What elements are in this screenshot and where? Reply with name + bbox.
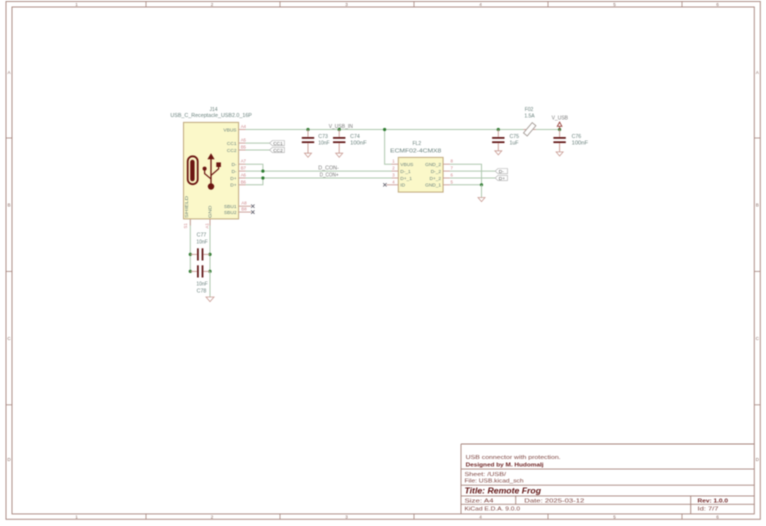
svg-text:A4: A4 — [241, 124, 247, 129]
svg-text:B7: B7 — [241, 166, 247, 171]
FL2 pin 6 D+_2 — [429, 173, 453, 182]
svg-text:C77: C77 — [197, 232, 207, 238]
svg-text:10nF: 10nF — [318, 141, 329, 147]
J14 pin VBUS A4 — [223, 124, 246, 133]
svg-text:D+: D+ — [499, 176, 505, 182]
svg-text:6: 6 — [716, 514, 719, 519]
svg-text:V_USB: V_USB — [552, 116, 569, 122]
svg-text:CC1: CC1 — [227, 141, 237, 147]
wire SHIELD drop — [189, 219, 191, 272]
ground below C74 — [336, 153, 343, 157]
svg-text:2: 2 — [211, 514, 214, 519]
svg-text:USB connector with protection.: USB connector with protection. — [466, 455, 562, 461]
J14 pin D+ A6 — [230, 173, 246, 182]
wire FL2 D+_2 out — [450, 177, 495, 179]
svg-text:A1: A1 — [205, 223, 210, 229]
svg-text:CC1: CC1 — [273, 141, 283, 147]
capacitor C73 — [302, 130, 330, 154]
svg-text:A8: A8 — [241, 201, 247, 206]
wire D+ B6 jog — [246, 178, 263, 185]
power flag V_USB — [552, 116, 569, 130]
svg-text:VBUS: VBUS — [223, 127, 236, 133]
ground below C73 — [305, 153, 312, 157]
svg-text:SHIELD: SHIELD — [184, 195, 190, 218]
wire C78 ground stub — [209, 271, 211, 297]
svg-text:D+: D+ — [230, 176, 236, 182]
J14 pin SBU1 A8 — [224, 201, 251, 210]
svg-text:GND: GND — [208, 205, 214, 218]
global label D+ — [495, 175, 507, 181]
junction D- jog — [261, 170, 264, 173]
wire VBUS rail V_USB_IN — [246, 129, 560, 131]
wire D- A7 jog — [246, 164, 263, 171]
junction FL2 GND — [480, 183, 483, 186]
svg-text:D-_1: D-_1 — [400, 169, 411, 175]
svg-text:CC2: CC2 — [273, 148, 283, 154]
J14 usb trident icon — [203, 153, 221, 189]
svg-text:C78: C78 — [197, 289, 207, 295]
svg-text:D-: D- — [499, 169, 504, 175]
J14 usb-c pill icon — [188, 156, 198, 184]
svg-text:CC2: CC2 — [227, 148, 237, 154]
svg-text:C76: C76 — [572, 134, 582, 140]
svg-text:D-_2: D-_2 — [431, 169, 442, 175]
J14 pin SBU2 B8 — [224, 207, 251, 216]
FL2 pin 3 D+_1 — [392, 173, 413, 182]
global label CC1 — [270, 141, 285, 147]
svg-text:KiCad E.D.A. 9.0.0: KiCad E.D.A. 9.0.0 — [465, 507, 521, 513]
J14 pin GND A1 — [205, 205, 214, 229]
FL2 pin 2 D-_1 — [392, 166, 412, 175]
svg-text:A5: A5 — [241, 138, 247, 143]
global label D- — [495, 169, 507, 175]
no-connect FL2 ID — [383, 183, 386, 186]
J14 pin CC1 A5 — [227, 138, 247, 147]
filter U FL2 body — [398, 157, 443, 192]
ground below C75 — [495, 151, 502, 155]
svg-text:6: 6 — [716, 2, 719, 7]
svg-text:SBU2: SBU2 — [224, 210, 237, 216]
svg-text:C75: C75 — [510, 134, 520, 140]
svg-text:5: 5 — [613, 514, 616, 519]
svg-text:B5: B5 — [241, 145, 247, 150]
ground below C78 — [206, 297, 214, 302]
svg-text:1uF: 1uF — [510, 141, 519, 147]
svg-text:100nF: 100nF — [350, 141, 367, 147]
wire D_CON+ segment — [246, 177, 392, 179]
svg-text:D-: D- — [231, 162, 236, 168]
ground below C76 — [556, 152, 563, 156]
svg-text:3: 3 — [345, 2, 348, 7]
wire CC2 stub — [246, 149, 270, 151]
capacitor C76 — [553, 130, 588, 152]
svg-text:4: 4 — [479, 2, 482, 7]
svg-text:5: 5 — [613, 2, 616, 7]
junction V_USB_IN / FL2 — [383, 128, 386, 131]
svg-text:Size: A4: Size: A4 — [465, 498, 494, 504]
svg-text:1: 1 — [75, 2, 78, 7]
svg-text:ID: ID — [400, 183, 405, 189]
junction C77 left — [189, 253, 192, 256]
svg-text:D+: D+ — [230, 183, 236, 189]
svg-text:10nF: 10nF — [196, 239, 207, 245]
capacitor C78 — [190, 265, 210, 294]
J14 pin D- B7 — [231, 166, 246, 175]
svg-text:VBUS: VBUS — [400, 162, 413, 168]
svg-text:File: USB.kicad_sch: File: USB.kicad_sch — [465, 479, 524, 485]
svg-text:1.5A: 1.5A — [524, 113, 535, 119]
svg-text:C74: C74 — [350, 134, 360, 140]
wire FL2 ground stub — [481, 185, 483, 198]
J14 pin D- A7 — [231, 159, 246, 168]
wire GND drop — [209, 219, 211, 272]
svg-text:2: 2 — [211, 2, 214, 7]
svg-text:A6: A6 — [241, 173, 247, 178]
global label CC2 — [270, 147, 285, 153]
svg-text:SBU1: SBU1 — [224, 204, 237, 210]
FL2 pin 7 D-_2 — [431, 166, 454, 175]
frame column ticks — [146, 2, 682, 520]
svg-text:Rev: 1.0.0: Rev: 1.0.0 — [698, 498, 729, 504]
wire FL2 GND_2 to GND_1 — [450, 164, 482, 185]
svg-text:A7: A7 — [241, 159, 247, 164]
wire CC1 stub — [246, 142, 270, 144]
FL2 pin 5 GND_1 — [425, 179, 453, 188]
svg-text:100nF: 100nF — [572, 141, 589, 147]
fuse F02 — [524, 107, 536, 136]
svg-text:V_USB_IN: V_USB_IN — [329, 124, 354, 130]
svg-text:D_CON+: D_CON+ — [320, 173, 339, 179]
junction C78 right — [208, 270, 211, 273]
junction C78 left — [189, 270, 192, 273]
svg-text:D+_2: D+_2 — [429, 176, 441, 182]
svg-text:D+_1: D+_1 — [400, 176, 412, 182]
junction V_USB_IN / C75 — [497, 128, 500, 131]
junction D+ jog — [261, 176, 264, 179]
svg-text:FL2: FL2 — [412, 141, 421, 147]
svg-text:D-: D- — [231, 169, 236, 175]
capacitor C77 — [190, 232, 210, 260]
FL2 pin 4 ID — [387, 179, 406, 188]
svg-text:USB_C_Receptacle_USB2.0_16P: USB_C_Receptacle_USB2.0_16P — [170, 113, 252, 119]
title block lines — [461, 444, 754, 514]
svg-text:Sheet: /USB/: Sheet: /USB/ — [465, 472, 507, 478]
no-connect SBU1 — [251, 205, 254, 208]
no-connect SBU2 — [251, 210, 254, 213]
ground below FL2 — [478, 198, 485, 202]
svg-text:B: B — [756, 202, 759, 207]
FL2 pin 8 GND_2 — [425, 159, 453, 168]
frame row letters — [7, 70, 759, 462]
svg-text:1: 1 — [75, 514, 78, 519]
svg-text:3: 3 — [345, 514, 348, 519]
junction C77 right — [208, 253, 211, 256]
J14 pin D+ B6 — [230, 179, 246, 188]
svg-text:B: B — [7, 202, 10, 207]
capacitor C74 — [333, 130, 367, 154]
capacitor C75 — [492, 130, 519, 151]
junction V_USB / C76 — [558, 128, 561, 131]
svg-text:B6: B6 — [241, 179, 247, 184]
svg-text:J14: J14 — [209, 107, 217, 113]
svg-text:Id: 7/7: Id: 7/7 — [698, 507, 719, 513]
wire FL2 D-_2 out — [450, 170, 495, 172]
junction V_USB_IN / C73 — [306, 128, 309, 131]
frame row ticks — [6, 138, 760, 405]
svg-text:Date: 2025-03-12: Date: 2025-03-12 — [524, 498, 584, 504]
J14 pin SHIELD S1 — [183, 195, 190, 228]
svg-text:10nF: 10nF — [196, 282, 207, 288]
svg-text:GND_2: GND_2 — [425, 162, 441, 168]
svg-text:B8: B8 — [241, 207, 247, 212]
connector J14 body — [184, 122, 239, 218]
svg-text:F02: F02 — [525, 107, 534, 113]
FL2 pin 1 VBUS — [392, 159, 414, 168]
svg-text:D_CON-: D_CON- — [318, 166, 339, 172]
svg-text:ECMF02-4CMX8: ECMF02-4CMX8 — [390, 148, 441, 154]
svg-text:GND_1: GND_1 — [425, 183, 441, 189]
svg-text:Designed by M. Hudomalj: Designed by M. Hudomalj — [466, 463, 544, 469]
junction V_USB_IN / C74 — [338, 128, 341, 131]
wire FL2 GND_1 — [450, 184, 482, 186]
wire FL2 VBUS drop — [385, 130, 392, 165]
J14 pin CC2 B5 — [227, 145, 247, 154]
svg-text:4: 4 — [479, 514, 482, 519]
svg-text:Title: Remote Frog: Title: Remote Frog — [465, 486, 542, 495]
svg-text:C73: C73 — [318, 134, 328, 140]
wire D_CON- segment — [246, 170, 392, 172]
svg-text:S1: S1 — [183, 223, 188, 229]
